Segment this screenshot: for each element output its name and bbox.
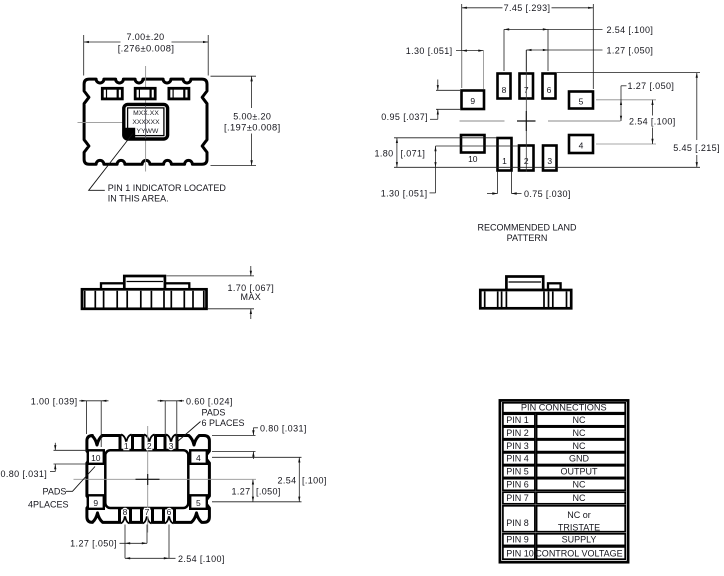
end view lid center	[506, 277, 543, 291]
svg-text:1.27 [.050]: 1.27 [.050]	[628, 81, 675, 91]
svg-text:10: 10	[468, 154, 478, 164]
svg-text:YYWW: YYWW	[137, 128, 160, 135]
table row PIN 1	[503, 414, 535, 426]
land pad 7	[520, 74, 534, 99]
svg-text:[.050]: [.050]	[256, 487, 281, 497]
svg-text:2.54 [.100]: 2.54 [.100]	[607, 25, 654, 35]
svg-text:PIN 4: PIN 4	[506, 454, 529, 464]
land pattern centerline horizontal gray segments	[460, 120, 505, 122]
land pad 9	[462, 91, 485, 110]
svg-text:2.54 [.100]: 2.54 [.100]	[178, 554, 225, 564]
front side view lid left tab	[101, 283, 124, 289]
svg-text:9: 9	[470, 96, 475, 106]
top view marking box outer	[124, 104, 168, 139]
centerline ext right	[211, 478, 256, 480]
land pad 4	[569, 135, 593, 153]
bottom view slot chevrons top	[121, 435, 132, 446]
top view seal pads (3 rectangles near top edge)	[102, 88, 122, 99]
dimension 7.00 extension lines	[83, 35, 85, 76]
svg-text:PIN 1 INDICATOR LOCATED: PIN 1 INDICATOR LOCATED	[108, 183, 227, 193]
svg-text:GND: GND	[569, 454, 590, 464]
dim 0.80 top-right arrows	[252, 428, 254, 436]
svg-text:PIN 2: PIN 2	[506, 428, 529, 438]
svg-text:CONTROL VOLTAGE: CONTROL VOLTAGE	[535, 548, 622, 558]
table row PIN 7	[503, 492, 535, 504]
dim 2.54 bottom line	[125, 557, 176, 559]
table row PIN 4	[503, 453, 535, 465]
svg-text:0.80 [.031]: 0.80 [.031]	[0, 469, 47, 479]
dim 1.00 ext lines	[86, 401, 88, 434]
svg-text:PIN 8: PIN 8	[506, 518, 529, 528]
dim 2.54 right line	[652, 100, 654, 116]
svg-text:PIN 6: PIN 6	[506, 480, 529, 490]
svg-text:4PLACES: 4PLACES	[28, 499, 69, 509]
table row PIN 9	[503, 534, 535, 546]
centerline segment over marking box	[145, 106, 147, 139]
svg-text:[.100]: [.100]	[302, 476, 327, 486]
land pad 6	[543, 74, 556, 99]
dim 1.30 top-left ext lines	[461, 51, 463, 88]
svg-text:0.80 [.031]: 0.80 [.031]	[260, 423, 307, 433]
svg-text:8: 8	[123, 507, 128, 517]
top view centerline horizontal (left segment)	[78, 121, 124, 123]
dim 1.00 arrows	[79, 400, 108, 402]
front side view castellation lines	[84, 291, 86, 308]
svg-text:0.75 [.030]: 0.75 [.030]	[524, 189, 571, 199]
dim 0.60 arrows	[158, 400, 185, 402]
right ext line pad5 centerline	[596, 99, 656, 101]
dim 0.80 left arrows	[54, 443, 56, 451]
front side view lid right tab	[165, 283, 189, 289]
bottom view centerlines	[147, 426, 149, 533]
end view castellation lines	[484, 292, 486, 308]
dim 0.60 ext lines	[164, 401, 166, 436]
svg-text:1.27 [.050]: 1.27 [.050]	[70, 539, 117, 549]
pads 6 places leader	[178, 422, 201, 442]
dim 1.27 right corner+line	[621, 85, 627, 87]
land pattern center cross	[517, 120, 536, 122]
dim 1.27 bottom line	[120, 542, 148, 544]
svg-text:3: 3	[169, 441, 174, 451]
land pad 10	[461, 135, 485, 153]
dim 2.54 right line	[298, 457, 300, 502]
bottom view inner cavity rounded rect	[105, 450, 188, 508]
svg-text:7.45 [.293]: 7.45 [.293]	[504, 3, 551, 13]
bottom view corner pad 4	[190, 450, 207, 464]
svg-text:10: 10	[91, 453, 101, 463]
svg-text:5: 5	[579, 96, 584, 106]
pin 1 leader line	[89, 134, 133, 191]
right ext line pad4 centerline	[596, 143, 656, 145]
svg-text:8: 8	[502, 85, 507, 95]
land pad 2	[519, 146, 534, 171]
dimension 5.00 line	[251, 76, 253, 108]
dim 1.70 arrows	[250, 266, 252, 276]
table row PIN 5	[503, 466, 535, 478]
svg-text:PIN 1: PIN 1	[506, 415, 529, 425]
svg-text:3: 3	[547, 156, 552, 166]
svg-text:MXX.XX: MXX.XX	[133, 110, 159, 117]
dim 0.80 top-right ext lines	[212, 434, 256, 436]
land pad 3	[543, 146, 557, 171]
table row PIN 10	[503, 547, 535, 559]
svg-text:1.80: 1.80	[374, 148, 393, 158]
svg-text:OUTPUT: OUTPUT	[561, 467, 599, 477]
front side view lid center	[124, 276, 165, 289]
svg-text:TRISTATE: TRISTATE	[558, 522, 600, 532]
dim 1.30 bottom-left ext line (crosses pads 10,1)	[436, 145, 519, 147]
svg-text:1: 1	[502, 156, 507, 166]
dim 1.27 right line	[252, 479, 254, 502]
dim 1.27 top line	[526, 49, 602, 51]
svg-text:1.27: 1.27	[231, 487, 250, 497]
svg-text:XXXXXX: XXXXXX	[132, 119, 160, 126]
svg-text:6: 6	[547, 85, 552, 95]
bottom view slot chevrons bottom	[121, 512, 130, 523]
svg-text:4: 4	[579, 141, 584, 151]
svg-text:9: 9	[93, 498, 98, 508]
svg-text:7: 7	[145, 507, 150, 517]
svg-text:PIN 5: PIN 5	[506, 467, 529, 477]
svg-text:PIN CONNECTIONS: PIN CONNECTIONS	[521, 403, 607, 413]
dim 0.80 left ext lines	[54, 449, 88, 451]
bottom view center cross	[136, 478, 160, 480]
svg-text:2: 2	[147, 441, 152, 451]
svg-text:1.00 [.039]: 1.00 [.039]	[31, 397, 78, 407]
svg-text:5.00±.20: 5.00±.20	[233, 111, 271, 121]
end view body	[480, 290, 571, 308]
land pad 1	[498, 138, 512, 171]
pads 4 places leader	[66, 467, 95, 492]
dim 1.27 top ext line	[525, 50, 527, 71]
top view marking box inner	[128, 108, 164, 136]
svg-text:7.00±.20: 7.00±.20	[126, 32, 164, 42]
svg-text:NC: NC	[573, 480, 586, 490]
dim 1.70 ext lines	[167, 275, 255, 277]
dim 2.54 right ext lines	[212, 456, 302, 458]
bottom view corner pad 9	[88, 495, 104, 509]
svg-text:2.54 [.100]: 2.54 [.100]	[629, 117, 676, 127]
table header cell	[503, 403, 625, 413]
svg-text:RECOMMENDED LAND: RECOMMENDED LAND	[477, 222, 577, 232]
svg-text:NC: NC	[573, 428, 586, 438]
dimension 7.00 line	[84, 41, 121, 43]
svg-text:PATTERN: PATTERN	[507, 233, 548, 243]
svg-text:[.071]: [.071]	[401, 148, 426, 158]
svg-text:PADS: PADS	[43, 487, 67, 497]
svg-text:5.45 [.215]: 5.45 [.215]	[673, 143, 720, 153]
svg-text:NC: NC	[573, 493, 586, 503]
svg-text:6 PLACES: 6 PLACES	[202, 418, 245, 428]
dim 1.27 bottom stems	[124, 525, 126, 559]
svg-text:2.54: 2.54	[277, 476, 296, 486]
dim 5.45 line	[696, 73, 698, 140]
svg-text:4: 4	[196, 453, 201, 463]
svg-text:1.30 [.051]: 1.30 [.051]	[406, 46, 453, 56]
pin connections table outer border	[500, 400, 628, 562]
long bottom extension line y=167.3	[394, 166, 700, 168]
svg-text:NC: NC	[573, 415, 586, 425]
dim 1.80 line	[396, 138, 398, 168]
dim 1.30 top-left line	[456, 50, 484, 52]
dim 1.30 bottom-left line	[435, 146, 437, 193]
land pad 8	[498, 74, 511, 99]
table row PIN 6	[503, 479, 535, 491]
svg-text:PIN 7: PIN 7	[506, 493, 529, 503]
bottom view outline with castellations and pad slots	[87, 436, 209, 523]
table row PIN 8	[503, 506, 535, 532]
dim 2.54 top ext lines	[503, 29, 505, 71]
svg-text:PADS: PADS	[202, 407, 226, 417]
svg-text:PIN 10: PIN 10	[506, 548, 534, 558]
bottom view corner pad 5	[190, 495, 207, 509]
svg-text:NC: NC	[573, 441, 586, 451]
dim 0.95 arrows	[437, 80, 439, 91]
table row PIN 3	[503, 440, 535, 452]
svg-text:IN THIS AREA.: IN THIS AREA.	[108, 194, 169, 204]
top view centerline vertical	[145, 66, 147, 172]
top view: package outline with castellations	[84, 79, 207, 164]
svg-text:[.197±0.008]: [.197±0.008]	[224, 122, 281, 133]
dimension 5.00 extension lines	[211, 75, 257, 77]
svg-text:[.276±0.008]: [.276±0.008]	[118, 42, 175, 53]
bottom view corner pad 10	[88, 450, 104, 464]
land pattern vertical centerline through pads 7 and 2	[525, 50, 527, 111]
svg-text:1.30 [.051]: 1.30 [.051]	[381, 188, 428, 198]
svg-text:0.60 [.024]: 0.60 [.024]	[186, 397, 233, 407]
land pad 5	[569, 92, 593, 109]
dim 7.45 line	[462, 7, 503, 9]
svg-text:SUPPLY: SUPPLY	[562, 535, 597, 545]
end view lid right tab	[548, 283, 561, 289]
svg-text:5: 5	[196, 498, 201, 508]
dim 0.75 arrows	[487, 193, 498, 195]
svg-text:0.95 [.037]: 0.95 [.037]	[381, 112, 428, 122]
svg-text:PIN 3: PIN 3	[506, 441, 529, 451]
table row PIN 2	[503, 427, 535, 439]
dim 0.95 ext lines	[436, 89, 460, 91]
dim 5.45 top extension	[557, 72, 700, 74]
pin 1 indicator filled corner	[123, 128, 136, 141]
dim 1.80 ext lines (cross pad 10)	[394, 137, 497, 139]
svg-text:MAX: MAX	[240, 292, 261, 302]
svg-text:6: 6	[167, 507, 172, 517]
dim 2.54 top line	[504, 28, 603, 30]
svg-text:1.27 [.050]: 1.27 [.050]	[607, 46, 654, 56]
svg-text:PIN 9: PIN 9	[506, 535, 529, 545]
svg-text:NC or: NC or	[567, 510, 591, 520]
svg-text:1: 1	[124, 441, 129, 451]
dim 0.75 stems	[497, 172, 499, 194]
front side view body	[82, 289, 207, 309]
dim 7.45 extension lines	[461, 4, 463, 88]
